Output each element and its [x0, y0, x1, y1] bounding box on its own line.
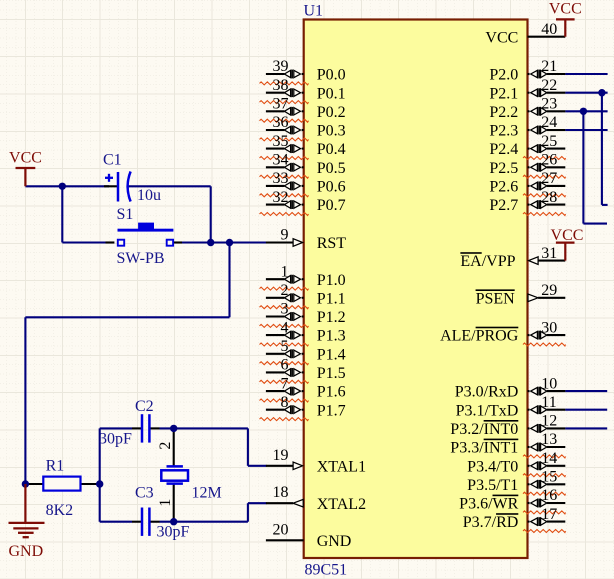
svg-text:SW-PB: SW-PB	[117, 250, 165, 267]
svg-text:P2.6: P2.6	[489, 179, 518, 196]
svg-text:P1.5: P1.5	[317, 365, 346, 382]
svg-text:21: 21	[541, 58, 557, 75]
wire P2.1 out	[565, 92, 607, 94]
pin 21 (P2.0)	[547, 73, 566, 75]
pin 34 (P0.5)	[266, 166, 285, 168]
svg-text:10u: 10u	[137, 187, 161, 204]
pin 15 (P3.5/T1)	[547, 483, 566, 485]
svg-text:P2.3: P2.3	[489, 123, 518, 140]
svg-text:30pF: 30pF	[99, 431, 132, 448]
no-connect marker	[260, 157, 309, 160]
svg-text:R1: R1	[46, 457, 65, 474]
wire C3 to XTAL2	[247, 503, 249, 522]
wire P3.1 out	[565, 409, 607, 411]
svg-text:2: 2	[281, 282, 289, 299]
svg-text:VCC: VCC	[485, 29, 518, 46]
no-connect marker	[260, 399, 309, 402]
pin 18 (XTAL2)	[266, 502, 293, 504]
wire crystal vertical bottom	[173, 484, 175, 522]
svg-text:ALE/PROG: ALE/PROG	[440, 328, 519, 345]
svg-text:VCC: VCC	[549, 1, 582, 18]
svg-text:22: 22	[541, 77, 557, 94]
svg-text:VCC: VCC	[9, 149, 42, 166]
svg-text:32: 32	[273, 189, 289, 206]
pin 12 (P3.2/INT0)	[547, 427, 566, 429]
no-connect marker	[260, 418, 309, 421]
wire R1 right stub	[81, 483, 100, 485]
svg-text:U1: U1	[304, 2, 324, 19]
svg-text:P0.1: P0.1	[317, 85, 346, 102]
wire jog across to left	[25, 316, 229, 318]
no-connect marker	[523, 157, 566, 160]
no-connect marker	[260, 213, 309, 216]
svg-text:39: 39	[273, 58, 289, 75]
svg-text:34: 34	[273, 152, 289, 169]
capacitor C2	[141, 414, 144, 442]
svg-text:30pF: 30pF	[157, 523, 190, 540]
no-connect marker	[523, 455, 566, 458]
svg-text:14: 14	[541, 450, 557, 467]
svg-text:24: 24	[541, 114, 557, 131]
wire P3.2 out	[565, 427, 607, 429]
crystal Y1 12M	[167, 465, 183, 468]
svg-text:P0.4: P0.4	[317, 141, 346, 158]
svg-text:25: 25	[541, 133, 557, 150]
pin 27 (P2.6)	[547, 185, 566, 187]
svg-text:C1: C1	[103, 151, 122, 168]
svg-text:35: 35	[273, 133, 289, 150]
svg-text:P1.4: P1.4	[317, 346, 346, 363]
svg-text:XTAL2: XTAL2	[317, 496, 366, 513]
svg-text:P1.3: P1.3	[317, 328, 346, 345]
svg-text:GND: GND	[9, 543, 44, 560]
svg-text:S1: S1	[117, 206, 134, 223]
svg-text:P2.2: P2.2	[489, 104, 518, 121]
no-connect marker	[260, 306, 309, 309]
no-connect marker	[260, 82, 309, 85]
node P2.1 branch	[598, 89, 605, 96]
pin 13 (P3.3/INT1)	[547, 446, 566, 448]
svg-text:38: 38	[273, 77, 289, 94]
pin 29 (PSEN)	[538, 297, 565, 299]
wire C2/C3 left vertical	[99, 428, 101, 521]
svg-text:P3.6/WR: P3.6/WR	[459, 496, 518, 513]
pin 5 (P1.4)	[266, 353, 285, 355]
no-connect marker	[523, 194, 566, 197]
no-connect marker	[523, 474, 566, 477]
pin 17 (P3.7/RD)	[547, 521, 566, 523]
svg-text:P1.0: P1.0	[317, 272, 346, 289]
svg-text:11: 11	[541, 394, 556, 411]
pin 3 (P1.2)	[266, 315, 285, 317]
pin 2 (P1.1)	[266, 297, 285, 299]
svg-text:1: 1	[157, 499, 174, 507]
svg-text:XTAL1: XTAL1	[317, 458, 366, 475]
svg-text:4: 4	[281, 319, 289, 336]
svg-text:C3: C3	[135, 484, 154, 501]
svg-text:P0.2: P0.2	[317, 104, 346, 121]
pin 28 (P2.7)	[547, 204, 566, 206]
svg-text:P3.7/RD: P3.7/RD	[463, 514, 519, 531]
svg-text:VCC: VCC	[551, 227, 584, 244]
svg-text:GND: GND	[317, 533, 352, 550]
svg-text:RST: RST	[317, 235, 347, 252]
pin 11 (P3.1/TxD)	[547, 409, 566, 411]
wire R1 left stub	[25, 483, 43, 485]
svg-text:10: 10	[541, 375, 557, 392]
no-connect marker	[260, 138, 309, 141]
ground GND	[24, 484, 26, 523]
wire P3.0 out	[565, 390, 607, 392]
svg-text:37: 37	[273, 96, 289, 113]
pin 6 (P1.5)	[266, 371, 285, 373]
svg-text:6: 6	[281, 357, 289, 374]
svg-text:27: 27	[541, 170, 557, 187]
no-connect marker	[523, 530, 566, 533]
pin 20 (GND)	[266, 539, 304, 541]
svg-text:2: 2	[157, 442, 174, 450]
pin 1 (P1.0)	[266, 278, 285, 280]
no-connect marker	[523, 175, 566, 178]
svg-text:P0.3: P0.3	[317, 123, 346, 140]
no-connect marker	[260, 324, 309, 327]
no-connect marker	[260, 194, 309, 197]
wire left drop to R1	[24, 317, 26, 484]
svg-text:12: 12	[541, 413, 557, 430]
svg-text:P2.0: P2.0	[489, 67, 518, 84]
svg-text:33: 33	[273, 170, 289, 187]
pin 19 (XTAL1)	[266, 465, 293, 467]
svg-text:P3.4/T0: P3.4/T0	[467, 458, 518, 475]
wire C3 row	[100, 521, 132, 523]
pin 33 (P0.6)	[266, 185, 285, 187]
svg-text:5: 5	[281, 338, 289, 355]
wire C2 to XTAL1	[247, 428, 249, 465]
svg-text:P2.1: P2.1	[489, 85, 518, 102]
svg-text:P0.5: P0.5	[317, 160, 346, 177]
capacitor C3	[141, 508, 144, 536]
svg-text:P1.6: P1.6	[317, 384, 346, 401]
pin 14 (P3.4/T0)	[547, 465, 566, 467]
wire C2 row	[100, 427, 132, 429]
pin 25 (P2.4)	[547, 148, 566, 150]
svg-text:P1.2: P1.2	[317, 309, 346, 326]
wire P2.2 branch down	[582, 111, 584, 223]
svg-text:PSEN: PSEN	[476, 290, 516, 307]
wire corner down to S1 row	[210, 186, 212, 242]
wire C1 right to corner	[129, 185, 211, 187]
no-connect marker	[260, 287, 309, 290]
svg-text:8: 8	[281, 394, 289, 411]
pin 40 (VCC)	[528, 36, 566, 38]
node C3/XTAL	[170, 518, 177, 525]
wire S1 row left segment	[62, 241, 105, 243]
no-connect marker	[260, 380, 309, 383]
svg-text:15: 15	[541, 469, 557, 486]
svg-text:12M: 12M	[192, 484, 222, 501]
node VCC/C1/S1	[59, 183, 66, 190]
wire VCC branch down to S1	[61, 186, 63, 242]
node RST branch	[226, 239, 233, 246]
switch S1 SW-PB	[118, 229, 174, 232]
pin 32 (P0.7)	[266, 204, 285, 206]
power VCC (top left)	[16, 167, 36, 169]
wire P2.2 out	[565, 110, 607, 112]
svg-text:C2: C2	[135, 398, 154, 415]
pin 36 (P0.3)	[266, 129, 285, 131]
svg-text:8K2: 8K2	[46, 502, 74, 519]
no-connect marker	[523, 511, 566, 514]
svg-text:P3.5/T1: P3.5/T1	[467, 477, 518, 494]
pin 26 (P2.5)	[547, 166, 566, 168]
svg-text:26: 26	[541, 152, 557, 169]
pin 22 (P2.1)	[547, 92, 566, 94]
svg-text:7: 7	[281, 375, 289, 392]
node P2.2 branch	[580, 108, 587, 115]
op-amp U1 89C51 body	[304, 20, 528, 559]
svg-text:P0.0: P0.0	[317, 67, 346, 84]
svg-text:P0.6: P0.6	[317, 179, 346, 196]
wire P2.3 out	[565, 129, 607, 131]
no-connect marker	[260, 343, 309, 346]
no-connect marker	[523, 492, 566, 495]
pin 23 (P2.2)	[547, 110, 566, 112]
wire P2.1 branch down	[601, 93, 603, 205]
svg-text:9: 9	[281, 227, 289, 244]
pin 7 (P1.6)	[266, 390, 285, 392]
pin 24 (P2.3)	[547, 129, 566, 131]
pin 38 (P0.1)	[266, 92, 285, 94]
node R1/GND	[22, 480, 29, 487]
pin 8 (P1.7)	[266, 409, 285, 411]
power VCC (pin 40)	[556, 18, 575, 20]
no-connect marker	[523, 213, 566, 216]
svg-text:89C51: 89C51	[305, 562, 348, 579]
pin 35 (P0.4)	[266, 148, 285, 150]
svg-text:19: 19	[273, 447, 289, 464]
wire RST node down	[228, 243, 230, 318]
svg-text:P1.7: P1.7	[317, 402, 346, 419]
svg-text:20: 20	[273, 521, 289, 538]
svg-text:3: 3	[281, 301, 289, 318]
svg-text:36: 36	[273, 114, 289, 131]
pin 16 (P3.6/WR)	[547, 502, 566, 504]
svg-text:P3.0/RxD: P3.0/RxD	[455, 384, 519, 401]
wire P2.0 out	[565, 73, 607, 75]
node R1/C2/C3	[96, 480, 103, 487]
svg-text:P2.7: P2.7	[489, 197, 518, 214]
no-connect marker	[523, 343, 566, 346]
wire S1 right to RST pin	[173, 241, 182, 243]
pin 31 (EA/VPP)	[538, 260, 565, 262]
svg-text:16: 16	[541, 487, 557, 504]
wire crystal vertical top	[173, 428, 175, 466]
svg-text:30: 30	[541, 319, 557, 336]
pin 4 (P1.3)	[266, 334, 285, 336]
svg-text:29: 29	[541, 282, 557, 299]
capacitor C1	[117, 172, 120, 202]
pin 30 (ALE/PROG)	[547, 334, 566, 336]
svg-text:P1.1: P1.1	[317, 290, 346, 307]
pin 39 (P0.0)	[266, 73, 285, 75]
svg-text:P3.2/INT0: P3.2/INT0	[450, 421, 518, 438]
svg-text:40: 40	[541, 21, 557, 38]
power VCC (pin 31)	[556, 241, 575, 243]
node C2/XTAL	[170, 425, 177, 432]
svg-text:P2.4: P2.4	[489, 141, 518, 158]
wire VCC row to C1/S1 node	[25, 185, 109, 187]
pin 10 (P3.0/RxD)	[547, 390, 566, 392]
svg-text:P2.5: P2.5	[489, 160, 518, 177]
svg-text:31: 31	[541, 245, 557, 262]
svg-text:EA/VPP: EA/VPP	[460, 253, 515, 270]
svg-text:23: 23	[541, 96, 557, 113]
pin 37 (P0.2)	[266, 110, 285, 112]
svg-text:28: 28	[541, 189, 557, 206]
svg-text:1: 1	[281, 263, 289, 280]
svg-text:P0.7: P0.7	[317, 197, 346, 214]
svg-text:17: 17	[541, 506, 557, 523]
svg-text:13: 13	[541, 431, 557, 448]
no-connect marker	[260, 119, 309, 122]
no-connect marker	[260, 175, 309, 178]
resistor R1	[43, 477, 80, 491]
svg-text:18: 18	[273, 484, 289, 501]
node C1/S1/RST	[207, 239, 214, 246]
no-connect marker	[260, 362, 309, 365]
svg-text:P3.3/INT1: P3.3/INT1	[450, 440, 518, 457]
svg-text:P3.1/TxD: P3.1/TxD	[456, 402, 519, 419]
no-connect marker	[260, 101, 309, 104]
pin 9 (RST)	[266, 241, 293, 243]
